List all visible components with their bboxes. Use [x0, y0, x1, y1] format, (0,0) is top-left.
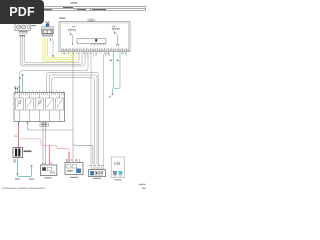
ECU bottom pin row: [62, 49, 129, 51]
ground terminal MC10: [29, 165, 34, 180]
yellow wire bus: [45, 52, 76, 61]
legend box: [111, 157, 124, 180]
grey wires BSI to relay R1: [43, 123, 46, 166]
BSI top pin stubs: [15, 89, 19, 93]
footer page number: [142, 188, 146, 189]
grey wire bus upper (cluster to ECU): [20, 52, 88, 93]
teal wire terminal: [112, 94, 114, 96]
ECU pin stubs: [62, 52, 126, 56]
cluster pin labels: [20, 34, 25, 37]
pin number specks ECU: [62, 47, 126, 50]
ground terminal MC33: [15, 173, 20, 180]
header table: [39, 6, 146, 10]
grey wire bus lower (BSI to right side): [47, 72, 99, 164]
ECU internal switch block right: [112, 28, 120, 45]
ground wire green: [18, 158, 32, 177]
footer url text: [2, 188, 45, 189]
1280 pin labels: [90, 164, 93, 167]
PDF badge overlay: [0, 0, 44, 24]
teal wire terminal label: [109, 97, 112, 98]
pin hatch top: [16, 93, 64, 96]
sensor wires down: [43, 38, 50, 61]
R1 designation label: [45, 177, 52, 178]
wire id specks below ECU: [63, 52, 126, 55]
BSI fuse box: [14, 93, 65, 127]
grey wire from BSI to unit 1320: [28, 122, 74, 131]
label beside cluster: [32, 25, 37, 26]
ECU internal switch block left: [68, 29, 76, 44]
BSI top pin stub caps: [15, 88, 18, 89]
cluster wire pin caps: [20, 35, 25, 37]
bottom label tab: [40, 123, 48, 126]
long grey wire ECU to unit 1280: [90, 52, 92, 165]
ECU designation label top-left: [59, 18, 65, 19]
sensor green wire with terminal: [52, 38, 54, 57]
1280 pins: [91, 167, 103, 170]
pin number specks BSI top: [15, 90, 64, 93]
relay box R1: [40, 163, 57, 179]
grey wire ECU to unit 1320: [72, 52, 74, 163]
R1 pin labels: [42, 162, 44, 165]
header table text: [40, 7, 107, 10]
BSI top pin labels: [14, 86, 20, 87]
cluster wires down (grey group): [20, 37, 26, 66]
ECU top tab: [88, 19, 95, 22]
connector of cluster: [19, 31, 28, 34]
red wire label: [15, 136, 18, 137]
BSI bottom pin caps: [18, 122, 46, 123]
ECU main box: [59, 22, 130, 52]
control unit box 1280: [89, 165, 106, 179]
teal wire into BSI: [19, 74, 23, 93]
sensor pin labels: [43, 35, 53, 38]
grey branch to unit 1280: [73, 143, 93, 164]
teal wires from ECU: [113, 52, 120, 95]
1280 designation label: [93, 178, 101, 179]
ECU internal relay strip: [77, 39, 106, 44]
extra grey pin stubs below ECU: [85, 54, 106, 167]
ground wire labels: [13, 160, 16, 163]
instrument cluster P1: [15, 23, 30, 31]
internal fuse symbols: [16, 95, 64, 122]
ECU internal switch right label: [112, 26, 116, 27]
1320 pin labels: [66, 159, 68, 162]
1320 designation label: [70, 177, 78, 178]
ECU internal switch label: [72, 26, 76, 27]
coolant temp sensor with blue cap: [42, 22, 54, 36]
footer page label: [139, 184, 146, 185]
battery junction box BB00: [13, 148, 32, 158]
red supply wire from BSI to battery junction: [19, 124, 69, 166]
control unit box 1320: [65, 159, 83, 178]
schematic title text: [71, 2, 78, 3]
strip pin hatch: [92, 43, 106, 45]
teal wire labels: [110, 60, 113, 61]
